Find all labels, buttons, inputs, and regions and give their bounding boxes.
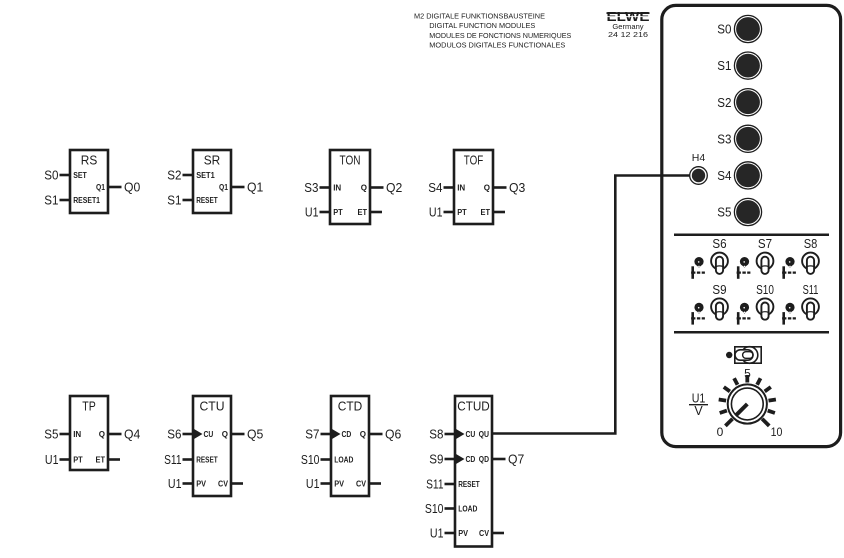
svg-text:S1: S1: [167, 193, 181, 208]
svg-text:Q4: Q4: [124, 427, 140, 442]
toggle switch S9: [711, 282, 728, 320]
pin RS.RESET1 input wire from S1: [60, 199, 72, 202]
jack icon: [726, 347, 761, 364]
svg-text:S6: S6: [167, 427, 181, 442]
pin CTUD.RESET input wire from S11: [445, 483, 457, 486]
box RS: [70, 150, 108, 213]
ELWE logo: [607, 10, 650, 39]
svg-text:PV: PV: [458, 529, 468, 538]
pin CTUD.CD input wire from S9: [445, 458, 457, 461]
svg-text:Q1: Q1: [96, 183, 105, 192]
edge trigger marker CTD.CD: [332, 429, 341, 439]
svg-text:SET: SET: [73, 171, 87, 180]
svg-text:TON: TON: [340, 153, 361, 168]
function block CTD: [301, 396, 401, 496]
svg-text:Q3: Q3: [509, 180, 525, 195]
svg-text:S7: S7: [758, 236, 772, 251]
svg-text:DIGITAL FUNCTION MODULES: DIGITAL FUNCTION MODULES: [429, 21, 535, 30]
svg-text:S10: S10: [301, 452, 320, 467]
toggle switch S8: [802, 236, 819, 274]
toggle switch S10: [756, 282, 774, 320]
svg-text:PT: PT: [457, 208, 467, 217]
svg-text:Q7: Q7: [508, 452, 524, 467]
box TOF: [454, 150, 493, 224]
pin CTD.PV input wire from U1: [321, 482, 333, 485]
svg-text:IN: IN: [457, 183, 465, 192]
function block RS: [44, 150, 140, 213]
svg-text:IN: IN: [333, 183, 341, 192]
pin CTD.CD input wire from S7: [321, 433, 333, 436]
actuator icon of S8: [782, 257, 797, 279]
svg-text:LOAD: LOAD: [458, 504, 477, 513]
svg-text:S10: S10: [425, 501, 444, 516]
pin CTU.PV input wire from U1: [183, 482, 195, 485]
svg-text:Q: Q: [484, 183, 490, 192]
pushbutton S4: [717, 162, 761, 189]
svg-text:S9: S9: [712, 282, 726, 297]
svg-text:S11: S11: [426, 477, 443, 492]
svg-text:S2: S2: [167, 168, 181, 183]
svg-text:RESET: RESET: [196, 196, 218, 205]
svg-text:Q0: Q0: [124, 180, 140, 195]
pin CTUD.QD output wire to Q7: [491, 458, 506, 461]
pin TON.IN input wire from S3: [320, 186, 332, 189]
pin TOF.IN input wire from S4: [444, 186, 456, 189]
svg-text:Q: Q: [222, 430, 228, 439]
svg-text:Q2: Q2: [386, 180, 402, 195]
function block TP: [44, 396, 140, 470]
pin CTUD.LOAD input wire from S10: [445, 507, 457, 510]
pin CTU.Q output wire to Q5: [230, 433, 245, 436]
svg-text:S0: S0: [717, 22, 731, 37]
pin TOF.ET stub wire: [492, 211, 505, 214]
svg-text:S3: S3: [717, 131, 731, 146]
toggle switch S6: [711, 236, 728, 274]
pin TON.ET stub wire: [369, 211, 382, 214]
svg-text:CV: CV: [218, 479, 229, 488]
svg-text:PV: PV: [334, 479, 344, 488]
pushbutton S0: [717, 15, 761, 42]
svg-text:S11: S11: [803, 282, 819, 297]
toggle switch S7: [757, 236, 774, 274]
lamp H4: [690, 152, 708, 184]
svg-text:S2: S2: [717, 95, 731, 110]
pin CTD.CV stub wire: [368, 482, 381, 485]
panel separator line 1: [674, 234, 829, 237]
panel separator line 2: [674, 331, 829, 334]
svg-text:CTD: CTD: [338, 399, 363, 414]
svg-text:MODULES DE FONCTIONS NUMERIQUE: MODULES DE FONCTIONS NUMERIQUES: [429, 31, 571, 40]
svg-text:S5: S5: [717, 205, 731, 220]
edge trigger marker CTU.CU: [194, 429, 203, 439]
box CTD: [331, 396, 369, 496]
pushbutton S2: [717, 89, 761, 116]
svg-text:CD: CD: [466, 455, 476, 464]
svg-text:U1: U1: [305, 205, 319, 220]
svg-text:M2 DIGITALE FUNKTIONSBAUSTEINE: M2 DIGITALE FUNKTIONSBAUSTEINE: [414, 12, 545, 21]
svg-text:CV: CV: [479, 529, 490, 538]
svg-text:U1: U1: [168, 476, 182, 491]
svg-text:TP: TP: [82, 399, 96, 414]
pin TP.ET stub wire: [107, 458, 120, 461]
pushbutton S3: [717, 125, 761, 152]
svg-text:Q5: Q5: [247, 427, 263, 442]
pin CTU.CV stub wire: [230, 482, 243, 485]
pin TON.PT input wire from U1: [320, 211, 332, 214]
pin CTUD.CV stub wire: [491, 532, 504, 535]
svg-text:PT: PT: [333, 208, 343, 217]
box TON: [330, 150, 370, 224]
svg-text:S5: S5: [44, 427, 58, 442]
svg-text:Q: Q: [360, 430, 366, 439]
pin CTU.CU input wire from S6: [183, 433, 195, 436]
svg-text:H4: H4: [692, 152, 706, 164]
value label U1/V: [689, 392, 708, 418]
svg-text:10: 10: [771, 425, 783, 439]
actuator icon of S10: [737, 303, 752, 325]
svg-text:S0: S0: [44, 168, 58, 183]
pin CTD.Q output wire to Q6: [368, 433, 383, 436]
svg-text:MODULOS DIGITALES FUNCTIONALES: MODULOS DIGITALES FUNCTIONALES: [429, 41, 565, 50]
pushbutton S1: [717, 52, 761, 79]
pin CTU.RESET input wire from S11: [183, 458, 195, 461]
function block CTU: [164, 396, 263, 496]
svg-text:CTU: CTU: [200, 399, 225, 414]
box CTU: [193, 396, 231, 496]
svg-text:PV: PV: [196, 479, 206, 488]
pin TOF.Q output wire to Q3: [492, 186, 507, 189]
svg-text:S4: S4: [428, 180, 442, 195]
svg-text:IN: IN: [73, 430, 81, 439]
pin TP.Q output wire to Q4: [107, 433, 122, 436]
function block TON: [304, 150, 402, 224]
box SR: [193, 150, 231, 213]
svg-text:S8: S8: [429, 427, 443, 442]
function block SR: [167, 150, 263, 213]
svg-text:S1: S1: [44, 193, 58, 208]
svg-text:CV: CV: [356, 479, 367, 488]
svg-text:TOF: TOF: [464, 153, 484, 168]
svg-text:Q: Q: [361, 183, 367, 192]
svg-text:RESET1: RESET1: [73, 196, 100, 205]
svg-text:U1: U1: [429, 205, 443, 220]
svg-text:S9: S9: [429, 452, 443, 467]
svg-text:V: V: [694, 404, 703, 418]
svg-text:S7: S7: [305, 427, 319, 442]
pin RS.Q1 output wire to Q0: [107, 186, 122, 189]
box TP: [70, 396, 108, 470]
svg-text:S4: S4: [717, 168, 731, 183]
pin CTUD.PV input wire from U1: [445, 532, 457, 535]
pin TP.PT input wire from U1: [60, 458, 72, 461]
pin CTD.LOAD input wire from S10: [321, 458, 333, 461]
svg-text:S8: S8: [804, 236, 818, 251]
svg-text:CTUD: CTUD: [457, 399, 490, 414]
svg-text:RESET: RESET: [458, 480, 480, 489]
actuator icon of S7: [737, 257, 752, 279]
actuator icon of S9: [691, 303, 706, 325]
pin SR.Q1 output wire to Q1: [230, 186, 245, 189]
toggle switch S11: [802, 282, 819, 320]
box CTUD: [455, 396, 492, 547]
svg-text:Q1: Q1: [219, 183, 228, 192]
svg-text:U1: U1: [306, 476, 320, 491]
svg-text:QD: QD: [479, 455, 489, 464]
pin RS.SET input wire from S0: [60, 174, 72, 177]
svg-text:S10: S10: [756, 282, 774, 297]
svg-text:Q: Q: [99, 430, 105, 439]
pin TOF.PT input wire from U1: [444, 211, 456, 214]
actuator icon of S6: [691, 257, 706, 279]
svg-text:LOAD: LOAD: [334, 455, 353, 464]
pushbutton S5: [717, 198, 761, 225]
wire net QU from CTUD to lamp H4: [491, 176, 690, 434]
svg-text:S3: S3: [304, 180, 318, 195]
svg-text:RESET: RESET: [196, 455, 218, 464]
svg-text:RS: RS: [81, 153, 98, 168]
svg-text:CU: CU: [466, 430, 476, 439]
svg-text:24 12 216: 24 12 216: [608, 30, 648, 39]
pin SR.SET1 input wire from S2: [183, 174, 195, 177]
svg-text:CD: CD: [342, 430, 352, 439]
panel outline: [662, 5, 841, 446]
pin CTUD.CU input wire from S8: [445, 433, 457, 436]
svg-text:U1: U1: [45, 452, 59, 467]
svg-text:PT: PT: [73, 455, 83, 464]
svg-text:ET: ET: [96, 455, 106, 464]
svg-text:U1: U1: [430, 526, 444, 541]
edge trigger marker CTUD.CU: [456, 429, 465, 439]
svg-text:Q6: Q6: [385, 427, 401, 442]
svg-text:S11: S11: [164, 452, 181, 467]
pin TON.Q output wire to Q2: [369, 186, 384, 189]
actuator icon of S11: [782, 303, 797, 325]
potentiometer U1: [717, 367, 783, 439]
svg-text:Q1: Q1: [247, 180, 263, 195]
svg-text:CU: CU: [204, 430, 214, 439]
svg-text:QU: QU: [479, 430, 490, 439]
svg-text:S1: S1: [717, 58, 731, 73]
function block TOF: [428, 150, 525, 224]
edge trigger marker CTUD.CD: [456, 454, 465, 464]
svg-text:ET: ET: [358, 208, 368, 217]
pin SR.RESET input wire from S1: [183, 199, 195, 202]
svg-text:S6: S6: [712, 236, 726, 251]
pin TP.IN input wire from S5: [60, 433, 72, 436]
svg-text:0: 0: [717, 425, 724, 439]
svg-text:SR: SR: [204, 153, 221, 168]
function block CTUD: [425, 396, 524, 547]
svg-text:SET1: SET1: [196, 171, 215, 180]
svg-text:ET: ET: [481, 208, 491, 217]
